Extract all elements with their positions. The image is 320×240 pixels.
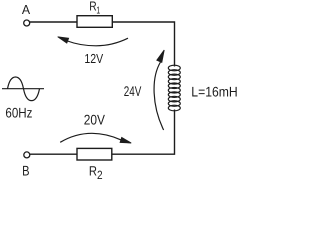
24V arrow (curved, arrowhead at top) <box>154 62 164 130</box>
node B terminal <box>24 152 30 158</box>
20V arrow (curved, arrowhead at right) <box>60 133 121 142</box>
svg-text:20V: 20V <box>84 112 106 128</box>
resistor R1 <box>77 16 112 28</box>
wire coil bottom to bottom-right corner and left to R2 <box>112 110 175 155</box>
inductor L1 coil <box>168 65 180 111</box>
AC source sine symbol <box>2 77 44 101</box>
svg-text:1: 1 <box>96 6 100 17</box>
wire A to R1 <box>30 21 77 23</box>
resistor R2 <box>77 148 112 160</box>
svg-text:L=16mH: L=16mH <box>191 83 237 99</box>
svg-text:2: 2 <box>97 168 103 181</box>
svg-text:24V: 24V <box>124 83 142 99</box>
svg-text:12V: 12V <box>84 51 103 66</box>
wire R1 to top-right corner and down to coil <box>112 22 174 67</box>
svg-text:R: R <box>89 164 97 179</box>
12V arrow (curved, arrowhead at left) <box>68 38 129 46</box>
wire R2 to B <box>30 153 77 155</box>
svg-text:60Hz: 60Hz <box>5 104 32 120</box>
node A terminal <box>24 20 30 26</box>
svg-text:A: A <box>22 2 31 17</box>
svg-text:B: B <box>22 163 29 179</box>
